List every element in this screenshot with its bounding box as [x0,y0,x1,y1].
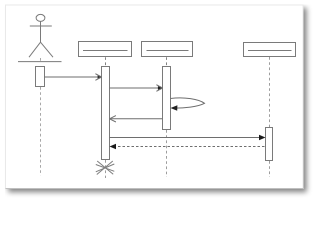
page bottom border darker [6,188,304,190]
self message on B3 [171,98,205,111]
activation bar B3 [163,67,171,130]
actor A1 arms [30,25,52,27]
message m2 B2 to B3 [110,85,163,92]
activation bar B1 (actor) [36,67,45,87]
object box O3 [244,43,296,57]
activation bar B2 [102,67,110,160]
actor A1 baseline [18,61,62,63]
object box O1 [79,42,132,57]
return r2 B4 to B2 dashed [110,144,265,150]
lifeline L2 [105,57,107,178]
page background with shadow [6,5,304,189]
activation bar B4 [266,128,273,161]
return r1 B3 to B2 [110,116,163,122]
message m1 actor to B2 [45,74,102,81]
destruction X on L2 [96,161,115,175]
object box O2 [142,42,193,57]
actor A1 head [36,14,45,21]
lifeline L3 [166,57,168,177]
actor A1 right leg [41,42,54,57]
actor A1 body [40,21,42,42]
mask shadow spill on left/top [0,0,5,207]
message m3 B2 to B4 [110,135,266,141]
lifeline L1 (actor) [40,58,42,176]
actor A1 left leg [29,42,41,57]
lifeline L4 [269,57,271,177]
